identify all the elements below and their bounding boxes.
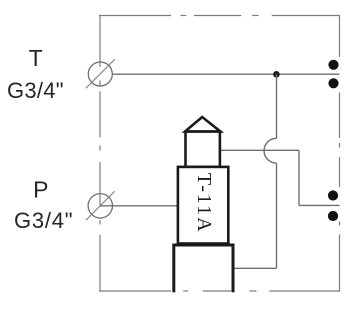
wire junction down to arc: [276, 74, 278, 138]
svg-text:T-11A: T-11A: [193, 173, 215, 234]
svg-text:G3/4": G3/4": [7, 78, 64, 103]
crossover arc hop: [264, 138, 276, 163]
valve base right side: [232, 244, 235, 293]
enclosure border right (dash-dot): [339, 15, 341, 292]
terminal dot upper of bottom pair: [328, 190, 338, 200]
solenoid roof triangle: [185, 117, 220, 132]
wire left to valve base: [233, 267, 277, 269]
wire down at x=299: [298, 150, 300, 205]
port P slash: [86, 191, 115, 220]
enclosure border bottom (dash-dot): [99, 290, 340, 292]
port T circle: [88, 62, 112, 86]
valve base left side: [172, 244, 175, 293]
wire neck to right: [220, 149, 299, 151]
wire T port to right border: [112, 73, 339, 75]
enclosure border left (dash-dot): [99, 15, 101, 292]
enclosure border top (dash-dot): [99, 15, 340, 17]
junction node on T wire: [273, 71, 280, 78]
wire P port to valve body: [101, 205, 178, 207]
terminal dot lower of bottom pair: [328, 211, 338, 221]
port P circle: [88, 194, 112, 218]
svg-text:P: P: [33, 177, 48, 203]
valve body rectangle (T-11A): [178, 167, 228, 244]
port T slash: [86, 59, 115, 88]
svg-text:T: T: [29, 45, 43, 71]
solenoid neck rectangle: [186, 132, 220, 167]
wire arc down to base level: [276, 163, 278, 268]
valve base top edge: [174, 244, 233, 247]
terminal dot upper-left of top pair: [328, 60, 338, 70]
wire right to bottom terminals: [299, 204, 340, 206]
terminal dot lower of top pair: [328, 78, 338, 88]
svg-text:G3/4": G3/4": [14, 208, 73, 233]
